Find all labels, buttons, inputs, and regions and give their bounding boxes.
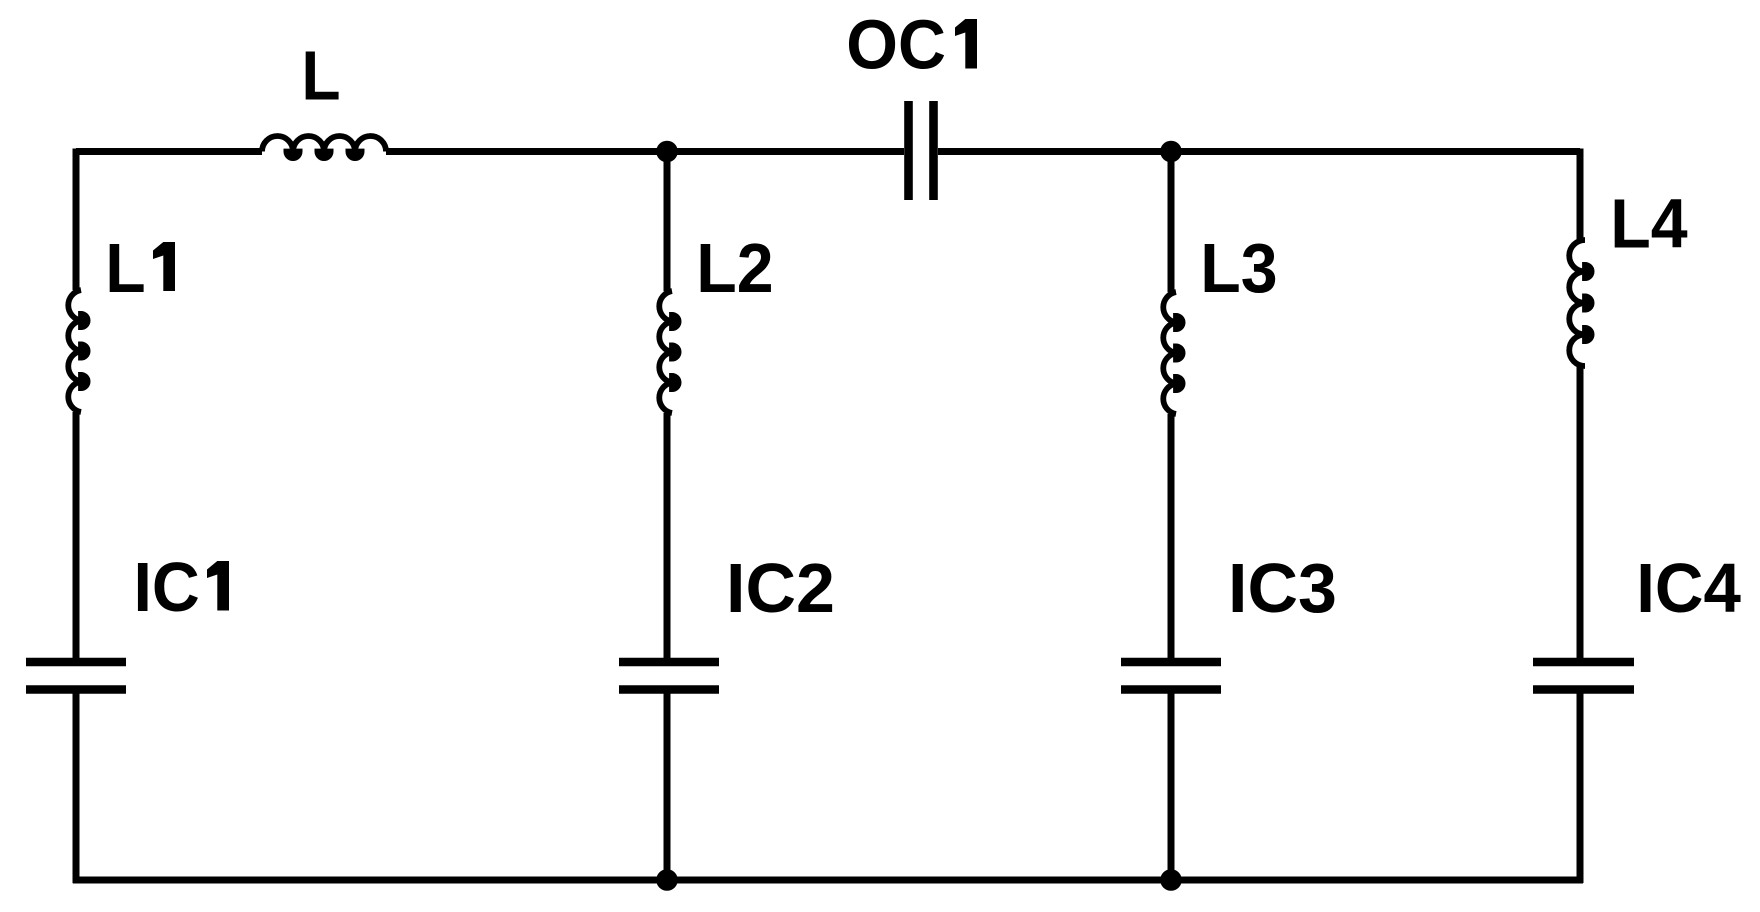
inductor L1 (left branch, vertical, 4 humps) (68, 290, 81, 412)
svg-text:IC3: IC3 (1228, 549, 1337, 627)
svg-text:IC4: IC4 (1636, 549, 1741, 627)
svg-text:IC: IC (134, 548, 200, 626)
node B junction dot (top, branch 3) (1160, 141, 1182, 163)
wire top-right segment (OC1 right plate to top-right corner) (938, 148, 1580, 155)
inductor L2 (branch 2, vertical, 4 humps) (659, 291, 672, 413)
wire right vertical middle (L4 to IC4) (1577, 366, 1584, 659)
capacitor IC3 plates (1121, 662, 1221, 690)
wire left vertical lower (IC1 to bottom-left corner) (73, 693, 80, 883)
node D junction dot (bottom, branch 3) (1160, 869, 1182, 891)
wire branch2 lower (IC2 to bottom node C) (664, 693, 671, 880)
inductor L3 (branch 3, vertical, 4 humps) (1163, 292, 1176, 414)
wire branch2 middle (L2 to IC2) (664, 413, 671, 659)
wire left vertical upper (corner to L1) (73, 149, 80, 291)
svg-text:L4: L4 (1610, 185, 1687, 263)
wire branch3 middle (L3 to IC3) (1168, 414, 1175, 659)
inductor L (series, horizontal, 4 humps) (262, 136, 386, 152)
wire branch3 lower (IC3 to bottom node D) (1168, 693, 1175, 880)
wire right vertical upper (corner to L4) (1577, 149, 1584, 241)
svg-text:L: L (105, 229, 145, 307)
wire branch2 upper (node A to L2) (664, 152, 671, 292)
wire bottom (73, 877, 1583, 884)
wire branch3 upper (node B to L3) (1168, 152, 1175, 293)
wire left vertical middle (L1 to IC1) (73, 412, 80, 659)
capacitor IC2 plates (619, 662, 719, 690)
wire right vertical lower (IC4 to bottom-right corner) (1577, 693, 1584, 883)
node A junction dot (top, branch 2) (656, 141, 678, 163)
svg-text:L2: L2 (696, 229, 773, 307)
capacitor IC4 plates (1533, 662, 1634, 690)
svg-text:IC2: IC2 (726, 549, 835, 627)
capacitor IC1 plates (26, 662, 126, 690)
wire top-middle segment (L coil to OC1 left plate, through node A) (386, 148, 904, 155)
svg-text:OC: OC (846, 6, 946, 84)
svg-text:L3: L3 (1200, 229, 1277, 307)
capacitor OC1 (series, vertical plates) (909, 101, 934, 200)
svg-text:L: L (301, 37, 340, 115)
inductor L4 (right branch, vertical, 4 humps) (1569, 240, 1585, 366)
wire top-left segment (76, 148, 262, 155)
node C junction dot (bottom, branch 2) (656, 869, 678, 891)
